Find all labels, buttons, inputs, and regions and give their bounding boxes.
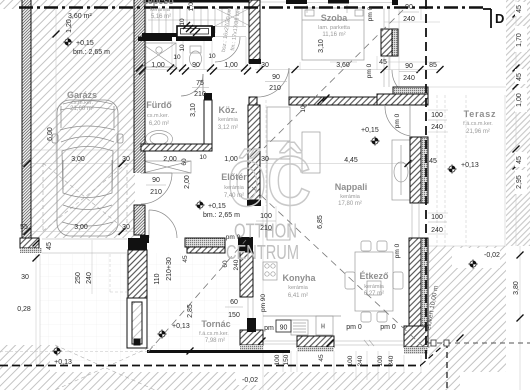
- svg-text:3,00: 3,00: [71, 156, 85, 163]
- svg-text:45: 45: [516, 156, 523, 164]
- svg-text:1,70: 1,70: [516, 33, 523, 47]
- svg-text:Konyha: Konyha: [282, 273, 316, 283]
- svg-text:Terasz: Terasz: [464, 109, 497, 119]
- svg-text:45: 45: [182, 255, 189, 263]
- svg-text:90: 90: [405, 63, 413, 70]
- svg-text:-0,02: -0,02: [484, 252, 500, 259]
- svg-text:240: 240: [403, 75, 415, 82]
- svg-text:pm 0: pm 0: [394, 113, 401, 128]
- svg-text:240: 240: [233, 259, 240, 270]
- svg-text:240: 240: [431, 124, 443, 131]
- svg-text:2,85: 2,85: [187, 304, 194, 318]
- svg-text:100: 100: [377, 355, 384, 366]
- svg-text:240: 240: [403, 16, 415, 23]
- svg-text:Szoba: Szoba: [321, 13, 348, 23]
- svg-text:7,98 m²: 7,98 m²: [205, 338, 225, 344]
- svg-text:150: 150: [283, 354, 290, 365]
- svg-text:0,28: 0,28: [17, 306, 31, 313]
- svg-text:pm 90: pm 90: [260, 294, 267, 312]
- svg-text:D: D: [495, 11, 504, 26]
- svg-text:pm 0: pm 0: [366, 63, 373, 78]
- svg-text:30: 30: [21, 274, 29, 281]
- svg-text:Nappali: Nappali: [335, 182, 368, 192]
- svg-text:cs.m.ker.: cs.m.ker.: [147, 113, 169, 119]
- svg-text:1,20: 1,20: [66, 19, 73, 33]
- svg-text:240: 240: [388, 355, 395, 366]
- svg-text:3,10: 3,10: [190, 103, 197, 117]
- svg-text:1,00: 1,00: [224, 156, 238, 163]
- svg-text:100: 100: [431, 112, 443, 119]
- svg-text:pm 0: pm 0: [394, 243, 401, 258]
- svg-text:90: 90: [192, 62, 200, 69]
- svg-text:pm 0: pm 0: [346, 324, 362, 331]
- svg-text:+0,15: +0,15: [208, 203, 226, 210]
- svg-text:17,80 m²: 17,80 m²: [338, 201, 362, 207]
- svg-text:1,00: 1,00: [516, 93, 523, 107]
- svg-text:1,00: 1,00: [151, 62, 165, 69]
- svg-text:6,20 m²: 6,20 m²: [149, 121, 169, 127]
- svg-text:5,16 m²: 5,16 m²: [151, 14, 171, 20]
- svg-text:3,60 m²: 3,60 m²: [68, 13, 92, 20]
- svg-text:150: 150: [228, 312, 240, 319]
- svg-text:pm 0: pm 0: [380, 324, 396, 331]
- svg-text:2,00: 2,00: [163, 156, 177, 163]
- svg-text:Lépcső: Lépcső: [142, 0, 174, 6]
- svg-text:6,27 m²: 6,27 m²: [364, 291, 384, 297]
- svg-text:210: 210: [150, 189, 162, 196]
- svg-text:kerámia: kerámia: [340, 194, 361, 200]
- svg-text:3,80: 3,80: [513, 281, 520, 295]
- svg-text:90: 90: [152, 177, 160, 184]
- svg-text:45: 45: [379, 59, 387, 66]
- svg-text:f.á.cs.m.ker.: f.á.cs.m.ker.: [463, 121, 493, 127]
- svg-text:+0,13: +0,13: [54, 359, 72, 366]
- svg-text:10: 10: [179, 44, 186, 52]
- svg-text:45: 45: [318, 354, 325, 362]
- svg-text:2,95: 2,95: [516, 175, 523, 189]
- svg-text:+0,13: +0,13: [172, 323, 190, 330]
- svg-text:55: 55: [20, 224, 28, 231]
- svg-text:90: 90: [272, 74, 280, 81]
- svg-text:30: 30: [261, 156, 269, 163]
- svg-text:kerámia: kerámia: [218, 117, 239, 123]
- svg-text:6,85: 6,85: [317, 215, 324, 229]
- svg-text:7,40 m²: 7,40 m²: [224, 193, 244, 199]
- svg-text:240: 240: [86, 272, 93, 284]
- svg-text:Fürdő: Fürdő: [146, 100, 172, 110]
- svg-text:+0,13: +0,13: [461, 162, 479, 169]
- svg-text:Tornác: Tornác: [201, 319, 230, 329]
- svg-text:Köz.: Köz.: [219, 105, 238, 115]
- svg-text:100: 100: [431, 214, 443, 221]
- svg-text:1,00: 1,00: [188, 0, 195, 11]
- svg-text:6,41 m²: 6,41 m²: [288, 293, 308, 299]
- svg-text:+0,15: +0,15: [76, 40, 94, 47]
- svg-text:21,96 m²: 21,96 m²: [466, 129, 490, 135]
- svg-text:45: 45: [516, 73, 523, 81]
- svg-text:3,12 m²: 3,12 m²: [218, 125, 238, 131]
- svg-text:pm 0: pm 0: [367, 6, 374, 21]
- svg-text:3,10: 3,10: [318, 39, 325, 53]
- svg-text:250: 250: [75, 272, 82, 284]
- svg-text:110: 110: [154, 273, 161, 284]
- svg-text:100: 100: [347, 355, 354, 366]
- svg-text:60: 60: [230, 299, 238, 306]
- svg-text:lam. parketta: lam. parketta: [318, 25, 351, 31]
- svg-text:210: 210: [194, 91, 206, 98]
- svg-text:240: 240: [357, 355, 364, 366]
- svg-text:-0,02: -0,02: [242, 377, 258, 384]
- svg-text:10: 10: [173, 54, 181, 61]
- svg-text:90: 90: [280, 325, 288, 332]
- svg-text:pm: pm: [264, 325, 274, 332]
- svg-text:11,16 m²: 11,16 m²: [322, 32, 345, 38]
- svg-text:30: 30: [122, 156, 130, 163]
- svg-text:4,45: 4,45: [344, 157, 358, 164]
- svg-text:3,00: 3,00: [74, 224, 88, 231]
- svg-text:Garázs: Garázs: [67, 90, 97, 100]
- svg-text:6,00: 6,00: [47, 127, 54, 141]
- svg-text:45: 45: [46, 242, 53, 250]
- svg-text:bm.: 2,65 m: bm.: 2,65 m: [73, 49, 110, 56]
- svg-text:45: 45: [429, 158, 437, 165]
- svg-text:Előtér: Előtér: [221, 172, 247, 182]
- svg-text:75: 75: [196, 80, 204, 87]
- svg-text:210+30: 210+30: [166, 257, 173, 281]
- svg-text:pm 0: pm 0: [226, 234, 241, 241]
- svg-text:60: 60: [222, 260, 229, 268]
- svg-text:1,00: 1,00: [224, 62, 238, 69]
- svg-text:Ĉ: Ĉ: [267, 141, 311, 220]
- svg-text:10: 10: [300, 105, 307, 113]
- svg-text:3,60: 3,60: [336, 62, 350, 69]
- svg-text:30: 30: [122, 224, 130, 231]
- svg-text:kerámia: kerámia: [224, 185, 245, 191]
- svg-text:85: 85: [429, 62, 437, 69]
- svg-text:210: 210: [260, 225, 272, 232]
- svg-text:60: 60: [181, 158, 188, 166]
- svg-text:kerámia: kerámia: [288, 285, 309, 291]
- svg-text:+0,15: +0,15: [361, 127, 379, 134]
- svg-text:21,60 m²: 21,60 m²: [70, 106, 94, 112]
- svg-text:210: 210: [269, 85, 281, 92]
- svg-text:30: 30: [261, 62, 269, 69]
- svg-text:45: 45: [516, 5, 523, 13]
- svg-text:10: 10: [208, 53, 216, 60]
- svg-text:10: 10: [199, 154, 207, 161]
- svg-text:bm.: 2,65 m: bm.: 2,65 m: [203, 212, 240, 219]
- svg-text:kerámia: kerámia: [364, 284, 385, 290]
- svg-text:100: 100: [260, 213, 272, 220]
- svg-text:kerámia: kerámia: [150, 7, 171, 13]
- svg-text:100: 100: [274, 354, 281, 365]
- svg-text:240: 240: [431, 227, 443, 234]
- svg-text:2,00: 2,00: [184, 175, 191, 189]
- svg-text:10: 10: [179, 18, 186, 26]
- svg-text:90: 90: [405, 4, 413, 11]
- svg-text:H: H: [321, 324, 325, 330]
- svg-text:f.á.cs.m.ker.: f.á.cs.m.ker.: [199, 331, 229, 337]
- svg-text:Étkező: Étkező: [359, 271, 389, 281]
